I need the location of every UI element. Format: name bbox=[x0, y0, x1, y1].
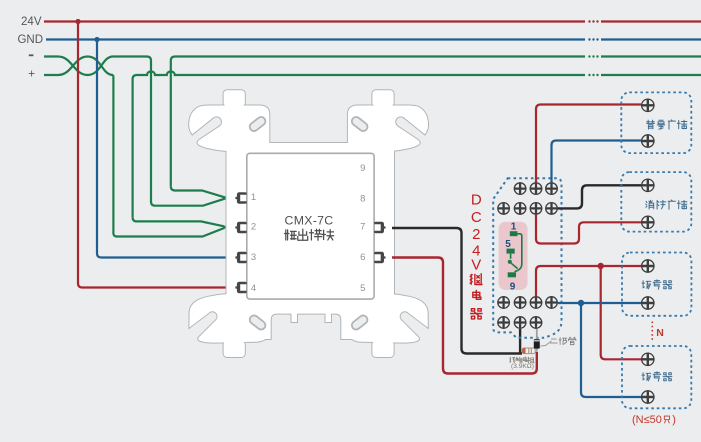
svg-text:V: V bbox=[471, 257, 481, 274]
wire terminal7 black to relay coil bbox=[392, 228, 522, 354]
terminal clamp 7 bbox=[374, 222, 385, 233]
relay contact symbol bbox=[499, 222, 528, 290]
fire broadcast screw terminal bbox=[642, 179, 654, 191]
svg-text:1: 1 bbox=[251, 192, 256, 203]
wire GND bus bbox=[46, 38, 701, 40]
relay pin5 pad bbox=[507, 249, 515, 254]
svg-text:GND: GND bbox=[17, 34, 43, 46]
label terminal resistor bbox=[510, 357, 515, 362]
svg-text:C: C bbox=[471, 209, 482, 226]
speaker 2 box bbox=[622, 346, 691, 408]
svg-text:1: 1 bbox=[511, 221, 517, 232]
node minus label bbox=[29, 54, 34, 56]
wire plus bus continuation from terminal2 (hops over verticals) bbox=[133, 71, 585, 217]
label diode bbox=[541, 341, 552, 346]
wire relay to speaker1 + (red) bbox=[536, 266, 641, 296]
wire relay to background-broadcast - (blue) bbox=[552, 141, 642, 183]
wire terminal1 taper upper bbox=[171, 186, 228, 198]
relay pin1 pad bbox=[510, 231, 518, 236]
svg-text:(N≤50: (N≤50 bbox=[632, 414, 662, 426]
module small slot bottom-right bbox=[350, 314, 369, 331]
svg-text:8: 8 bbox=[360, 193, 365, 204]
speaker 2 label bbox=[642, 373, 651, 381]
wire twisted pair minus bbox=[44, 57, 113, 76]
svg-text:D: D bbox=[471, 191, 482, 208]
wire relay to fire-broadcast - (red) bbox=[536, 215, 641, 244]
relay DC24V dashed enclosure bbox=[493, 178, 561, 337]
wire to speaker2 - (blue) bbox=[581, 303, 641, 397]
background broadcast label bbox=[647, 120, 655, 129]
wire to speaker2 + (red) bbox=[601, 266, 641, 359]
svg-text:9: 9 bbox=[360, 163, 365, 174]
junction GND bbox=[94, 37, 99, 42]
terminal clamp 4 bbox=[235, 282, 246, 293]
background broadcast screw terminal bbox=[642, 99, 654, 111]
relay movable contact bbox=[508, 260, 512, 264]
wire terminal6 red to resistor/diode junction bbox=[392, 258, 537, 374]
wire relay to fire-broadcast + (black) bbox=[558, 185, 641, 208]
module CMX-7C mounting plate bbox=[189, 90, 428, 357]
svg-text:2: 2 bbox=[251, 222, 256, 233]
fire broadcast label bbox=[646, 200, 654, 209]
speaker 1 box bbox=[622, 253, 691, 316]
speaker 2 screw terminal bbox=[642, 353, 654, 365]
wire relay to background-broadcast + (red) bbox=[536, 105, 641, 183]
wire twisted pair plus bbox=[44, 57, 113, 76]
svg-text:5: 5 bbox=[360, 283, 365, 294]
svg-text:2: 2 bbox=[472, 226, 480, 243]
terminal clamp 1 bbox=[235, 192, 246, 203]
module small slot top-right bbox=[350, 115, 369, 132]
wire plus drop to terminal2 bbox=[113, 75, 225, 237]
wire terminal2 taper upper bbox=[133, 217, 228, 227]
svg-text:N: N bbox=[656, 327, 664, 339]
relay pin9 pad bbox=[508, 272, 516, 277]
speaker 1 screw terminal bbox=[642, 260, 654, 272]
wire minus bus continuation from terminal1 bbox=[171, 57, 585, 187]
background broadcast screw terminal bbox=[642, 135, 654, 147]
fire broadcast screw terminal bbox=[642, 216, 654, 228]
relay screw terminals top group bbox=[514, 183, 526, 195]
svg-text:24V: 24V bbox=[21, 16, 42, 28]
terminal clamp 2 bbox=[235, 222, 246, 233]
wire minus drop to terminal1 bbox=[113, 57, 226, 206]
module label plate bbox=[247, 153, 374, 299]
terminal clamp 3 bbox=[235, 252, 246, 263]
wire GND to terminal3 bbox=[97, 40, 228, 258]
relay internal wiring bbox=[511, 234, 522, 272]
wire relay coil screw to resistor junction bbox=[519, 329, 521, 354]
junction speaker blue bbox=[578, 300, 584, 306]
wire 24V bus bbox=[44, 20, 701, 22]
svg-text:3: 3 bbox=[251, 252, 256, 263]
junction speaker red bbox=[598, 263, 604, 269]
terminal clamp 6 bbox=[374, 252, 385, 263]
svg-text:6: 6 bbox=[360, 252, 365, 263]
svg-text:5: 5 bbox=[505, 239, 511, 250]
background broadcast box bbox=[621, 92, 691, 153]
module small slot top-left bbox=[248, 115, 267, 132]
speaker 1 label bbox=[642, 281, 651, 289]
junction 24V bbox=[75, 19, 80, 24]
svg-text:9: 9 bbox=[510, 282, 516, 293]
svg-text:4: 4 bbox=[251, 283, 256, 294]
resistor R terminal 3.9k bbox=[522, 348, 535, 354]
node N dotted continuation bbox=[651, 322, 653, 341]
svg-text:): ) bbox=[672, 414, 676, 426]
svg-text:+: + bbox=[28, 67, 35, 81]
svg-text:CMX-7C: CMX-7C bbox=[285, 213, 334, 227]
speaker 1 screw terminal bbox=[642, 297, 654, 309]
fire broadcast box bbox=[621, 172, 691, 232]
module text 输出模块 bbox=[285, 230, 297, 240]
diode D1 bbox=[536, 329, 538, 352]
wire 24V to terminal4 bbox=[78, 22, 228, 288]
svg-text:7: 7 bbox=[360, 222, 365, 233]
wire relay to speaker1 - (blue) bbox=[558, 302, 641, 304]
svg-text:(3.9KΩ): (3.9KΩ) bbox=[511, 363, 534, 370]
relay screw terminals bottom group bbox=[498, 297, 510, 309]
module small slot bottom-left bbox=[248, 314, 267, 331]
speaker 2 screw terminal bbox=[642, 391, 654, 403]
